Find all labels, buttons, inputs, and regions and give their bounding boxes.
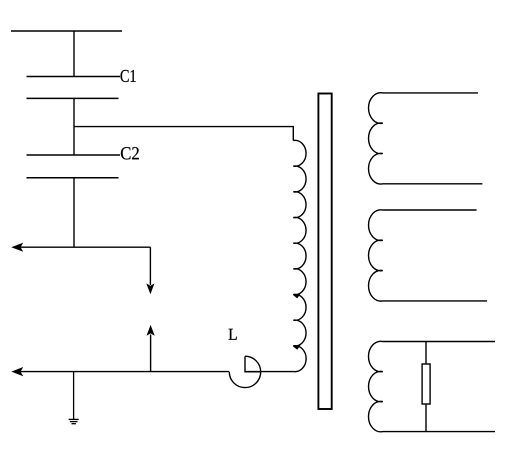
- arrowhead on primary winding junction 8: [293, 345, 301, 349]
- arrow up from bottom line: [150, 335, 152, 372]
- wire top bus: [11, 30, 122, 32]
- label L: [229, 329, 237, 340]
- label C2: [121, 147, 139, 159]
- arrowhead left upper: [11, 243, 23, 252]
- secondary winding 1: [369, 93, 483, 184]
- wire output line upper: [20, 246, 150, 248]
- label C1: [121, 70, 136, 82]
- inductor L pickup loop: [229, 356, 261, 387]
- wire bottom line: [20, 371, 229, 373]
- capacitor C2: [27, 155, 121, 178]
- wire resistor bottom lead: [425, 404, 427, 432]
- wire C2 down to output line: [73, 178, 75, 247]
- wire resistor top lead: [425, 342, 427, 365]
- arrowhead on primary winding junction 6: [293, 294, 301, 298]
- secondary winding 3: [368, 341, 495, 432]
- resistor load: [422, 364, 430, 404]
- arrowhead down: [146, 283, 154, 294]
- secondary winding 2: [369, 210, 487, 301]
- wire C1 to C2: [73, 98, 75, 155]
- wire corner down: [149, 247, 151, 285]
- wire branch to primary winding: [74, 127, 293, 141]
- arrowhead left lower: [11, 367, 23, 376]
- wire from top bus to C1: [73, 31, 75, 77]
- arrowhead up: [147, 325, 155, 336]
- ground: [69, 372, 79, 424]
- wire loop to primary winding: [245, 371, 293, 373]
- capacitor C1: [27, 77, 121, 99]
- primary winding: [293, 140, 306, 371]
- core bar: [318, 94, 331, 410]
